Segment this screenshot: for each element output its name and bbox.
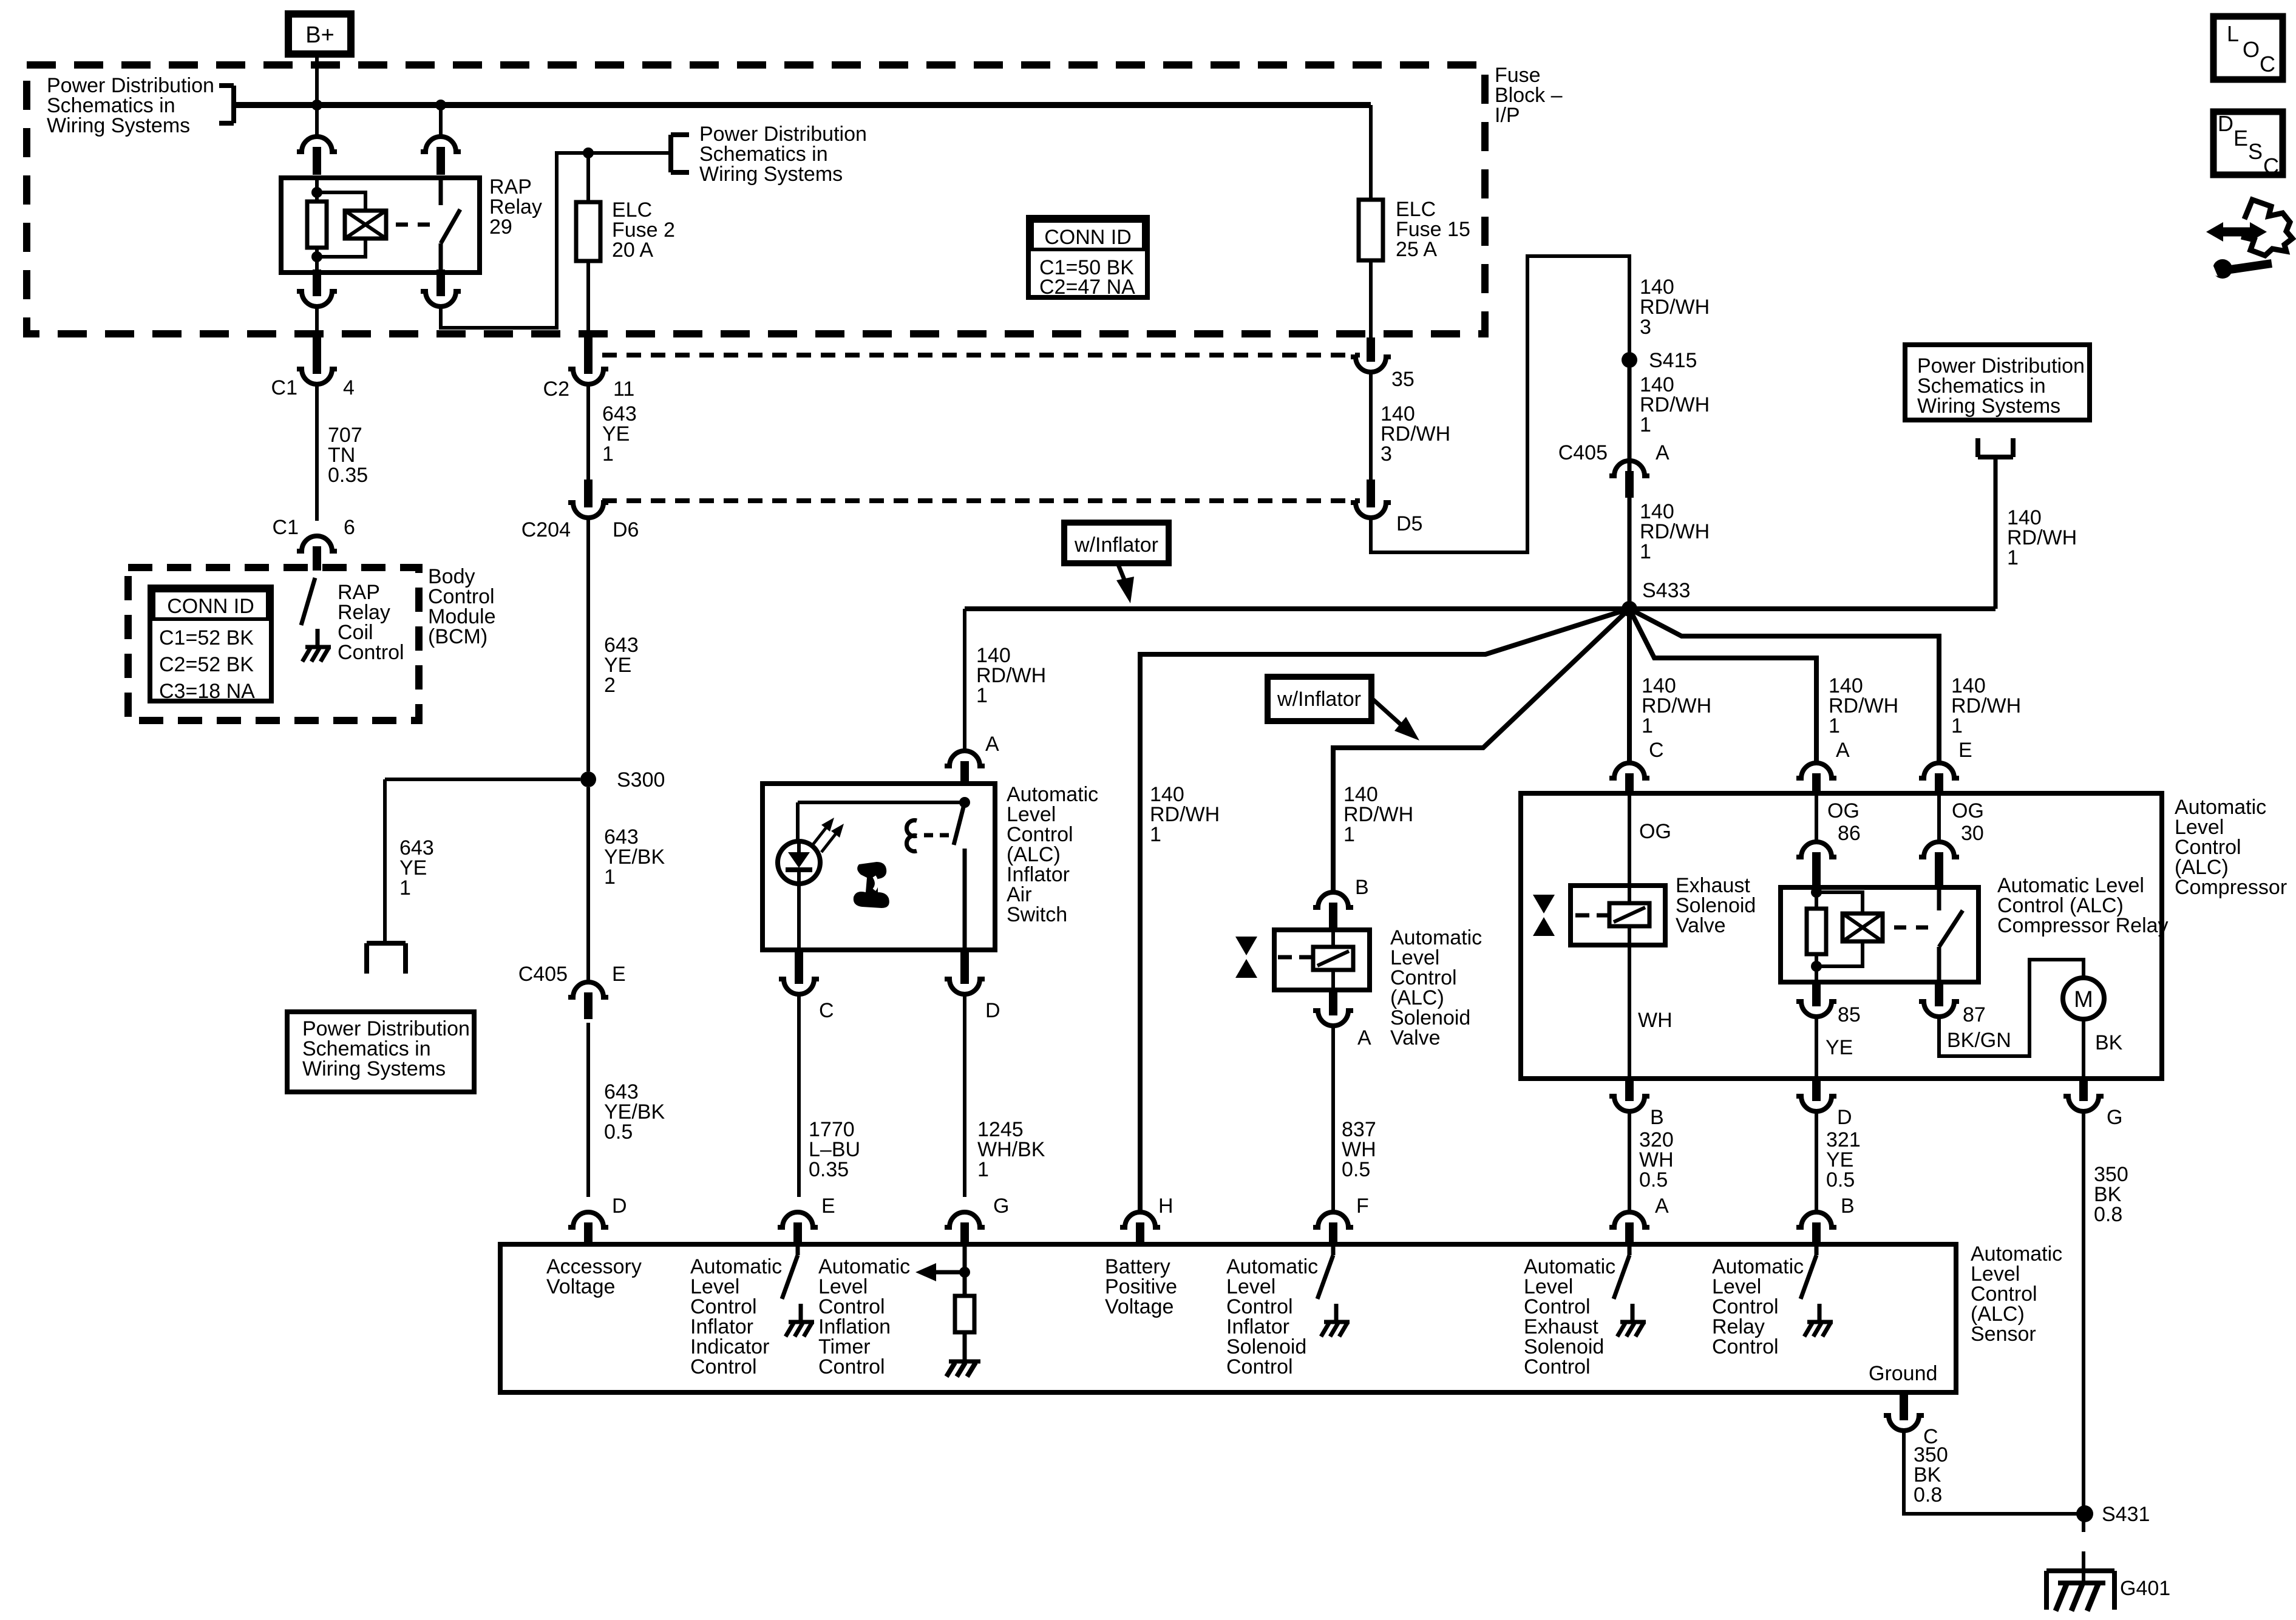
svg-text:CONN ID: CONN ID	[1044, 226, 1132, 249]
svg-text:1: 1	[1640, 540, 1651, 563]
svg-text:0.35: 0.35	[809, 1158, 849, 1181]
svg-text:1: 1	[1343, 823, 1355, 846]
svg-text:Compressor Relay: Compressor Relay	[1997, 914, 2169, 937]
svg-text:1: 1	[399, 876, 411, 900]
svg-text:Wiring Systems: Wiring Systems	[302, 1057, 446, 1080]
svg-text:C2=52 BK: C2=52 BK	[159, 653, 254, 676]
svg-text:C2: C2	[543, 378, 569, 401]
svg-text:0.8: 0.8	[2094, 1203, 2122, 1226]
svg-text:0.35: 0.35	[328, 464, 368, 487]
svg-text:0.5: 0.5	[1342, 1158, 1370, 1181]
svg-text:C405: C405	[518, 963, 568, 986]
svg-text:L: L	[2227, 21, 2239, 46]
svg-text:G401: G401	[2120, 1577, 2170, 1600]
svg-text:86: 86	[1838, 822, 1861, 845]
svg-text:A: A	[1836, 739, 1850, 762]
svg-text:Ground: Ground	[1869, 1362, 1937, 1385]
svg-text:BK: BK	[2095, 1031, 2123, 1054]
svg-text:1: 1	[602, 442, 614, 466]
svg-text:30: 30	[1961, 822, 1984, 845]
svg-text:0.5: 0.5	[1826, 1168, 1855, 1191]
svg-text:Valve: Valve	[1676, 914, 1726, 937]
svg-text:D5: D5	[1396, 512, 1422, 535]
svg-text:D: D	[985, 999, 1000, 1022]
svg-text:D: D	[2218, 111, 2233, 136]
svg-text:Compressor: Compressor	[2175, 876, 2287, 899]
svg-text:w/Inflator: w/Inflator	[1074, 534, 1158, 557]
svg-text:D: D	[612, 1195, 627, 1218]
svg-text:Control: Control	[338, 641, 404, 664]
svg-text:C: C	[2263, 154, 2279, 178]
svg-text:C1=52 BK: C1=52 BK	[159, 626, 254, 649]
svg-text:O: O	[2243, 37, 2260, 62]
svg-text:E: E	[821, 1195, 835, 1218]
svg-text:B: B	[1841, 1195, 1855, 1218]
svg-text:G: G	[2107, 1106, 2122, 1129]
svg-text:0.5: 0.5	[604, 1120, 633, 1144]
svg-text:20 A: 20 A	[612, 239, 653, 262]
svg-text:Wiring Systems: Wiring Systems	[1917, 395, 2060, 418]
svg-text:E: E	[612, 963, 626, 986]
svg-text:Switch: Switch	[1007, 903, 1067, 926]
svg-text:Voltage: Voltage	[1105, 1295, 1173, 1318]
svg-text:S415: S415	[1649, 349, 1697, 372]
svg-text:Control: Control	[818, 1355, 885, 1378]
svg-text:B: B	[1650, 1106, 1664, 1129]
svg-text:25 A: 25 A	[1396, 238, 1437, 261]
svg-text:A: A	[1655, 1195, 1669, 1218]
svg-text:Control: Control	[690, 1355, 757, 1378]
svg-text:1: 1	[976, 684, 988, 707]
svg-text:S433: S433	[1642, 579, 1690, 602]
svg-text:YE: YE	[1826, 1036, 1853, 1059]
svg-text:Voltage: Voltage	[546, 1275, 615, 1298]
svg-text:2: 2	[604, 674, 616, 697]
svg-text:A: A	[985, 733, 999, 756]
svg-text:C: C	[2260, 52, 2275, 76]
svg-text:OG: OG	[1639, 820, 1671, 843]
svg-text:0.5: 0.5	[1639, 1168, 1668, 1191]
svg-text:85: 85	[1838, 1003, 1861, 1026]
svg-text:M: M	[2074, 987, 2093, 1012]
svg-text:E: E	[1958, 739, 1972, 762]
svg-text:(BCM): (BCM)	[428, 625, 487, 648]
svg-text:35: 35	[1391, 368, 1415, 391]
svg-text:CONN ID: CONN ID	[167, 595, 254, 618]
svg-text:1: 1	[1150, 823, 1161, 846]
svg-text:A: A	[1656, 441, 1669, 464]
svg-text:BK/GN: BK/GN	[1947, 1029, 2011, 1052]
svg-text:OG: OG	[1827, 799, 1860, 822]
svg-text:C: C	[819, 999, 834, 1022]
svg-text:H: H	[1158, 1195, 1173, 1218]
svg-text:B+: B+	[305, 22, 335, 48]
svg-text:C1: C1	[273, 516, 299, 539]
svg-text:C405: C405	[1558, 441, 1608, 464]
svg-text:S: S	[2248, 139, 2263, 164]
svg-text:G: G	[993, 1195, 1009, 1218]
svg-text:OG: OG	[1952, 799, 1984, 822]
svg-text:C1: C1	[271, 376, 297, 399]
svg-text:1: 1	[604, 866, 616, 889]
svg-text:29: 29	[489, 215, 512, 239]
svg-text:I/P: I/P	[1495, 104, 1520, 127]
svg-text:87: 87	[1963, 1003, 1986, 1026]
svg-text:C3=18 NA: C3=18 NA	[159, 680, 255, 703]
svg-text:Control: Control	[1712, 1335, 1779, 1358]
svg-text:1: 1	[977, 1158, 989, 1181]
svg-text:Control: Control	[1524, 1355, 1591, 1378]
svg-text:3: 3	[1381, 442, 1392, 466]
svg-text:1: 1	[1640, 413, 1651, 436]
svg-text:F: F	[1356, 1195, 1369, 1218]
svg-text:6: 6	[344, 516, 355, 539]
svg-text:1: 1	[2007, 546, 2019, 569]
svg-text:C2=47 NA: C2=47 NA	[1039, 276, 1135, 299]
svg-text:A: A	[1357, 1026, 1371, 1049]
svg-text:Control: Control	[1226, 1355, 1293, 1378]
svg-text:C204: C204	[521, 518, 571, 541]
svg-text:WH: WH	[1638, 1009, 1673, 1032]
svg-text:1: 1	[1642, 714, 1653, 737]
svg-text:E: E	[2233, 126, 2248, 151]
svg-text:D6: D6	[613, 518, 639, 541]
svg-text:Sensor: Sensor	[1971, 1323, 2036, 1346]
svg-text:Wiring Systems: Wiring Systems	[699, 163, 843, 186]
svg-text:Wiring Systems: Wiring Systems	[47, 114, 190, 137]
svg-text:C: C	[1649, 739, 1664, 762]
svg-text:S431: S431	[2102, 1503, 2150, 1526]
svg-text:D: D	[1837, 1106, 1852, 1129]
svg-text:4: 4	[343, 376, 355, 399]
svg-text:1: 1	[1951, 714, 1963, 737]
svg-text:11: 11	[613, 378, 634, 401]
svg-text:S300: S300	[617, 768, 665, 791]
svg-text:Valve: Valve	[1390, 1026, 1441, 1049]
svg-text:1: 1	[1829, 714, 1840, 737]
svg-text:w/Inflator: w/Inflator	[1277, 688, 1361, 711]
svg-text:B: B	[1355, 876, 1369, 899]
svg-text:3: 3	[1640, 316, 1651, 339]
svg-text:0.8: 0.8	[1914, 1483, 1942, 1506]
